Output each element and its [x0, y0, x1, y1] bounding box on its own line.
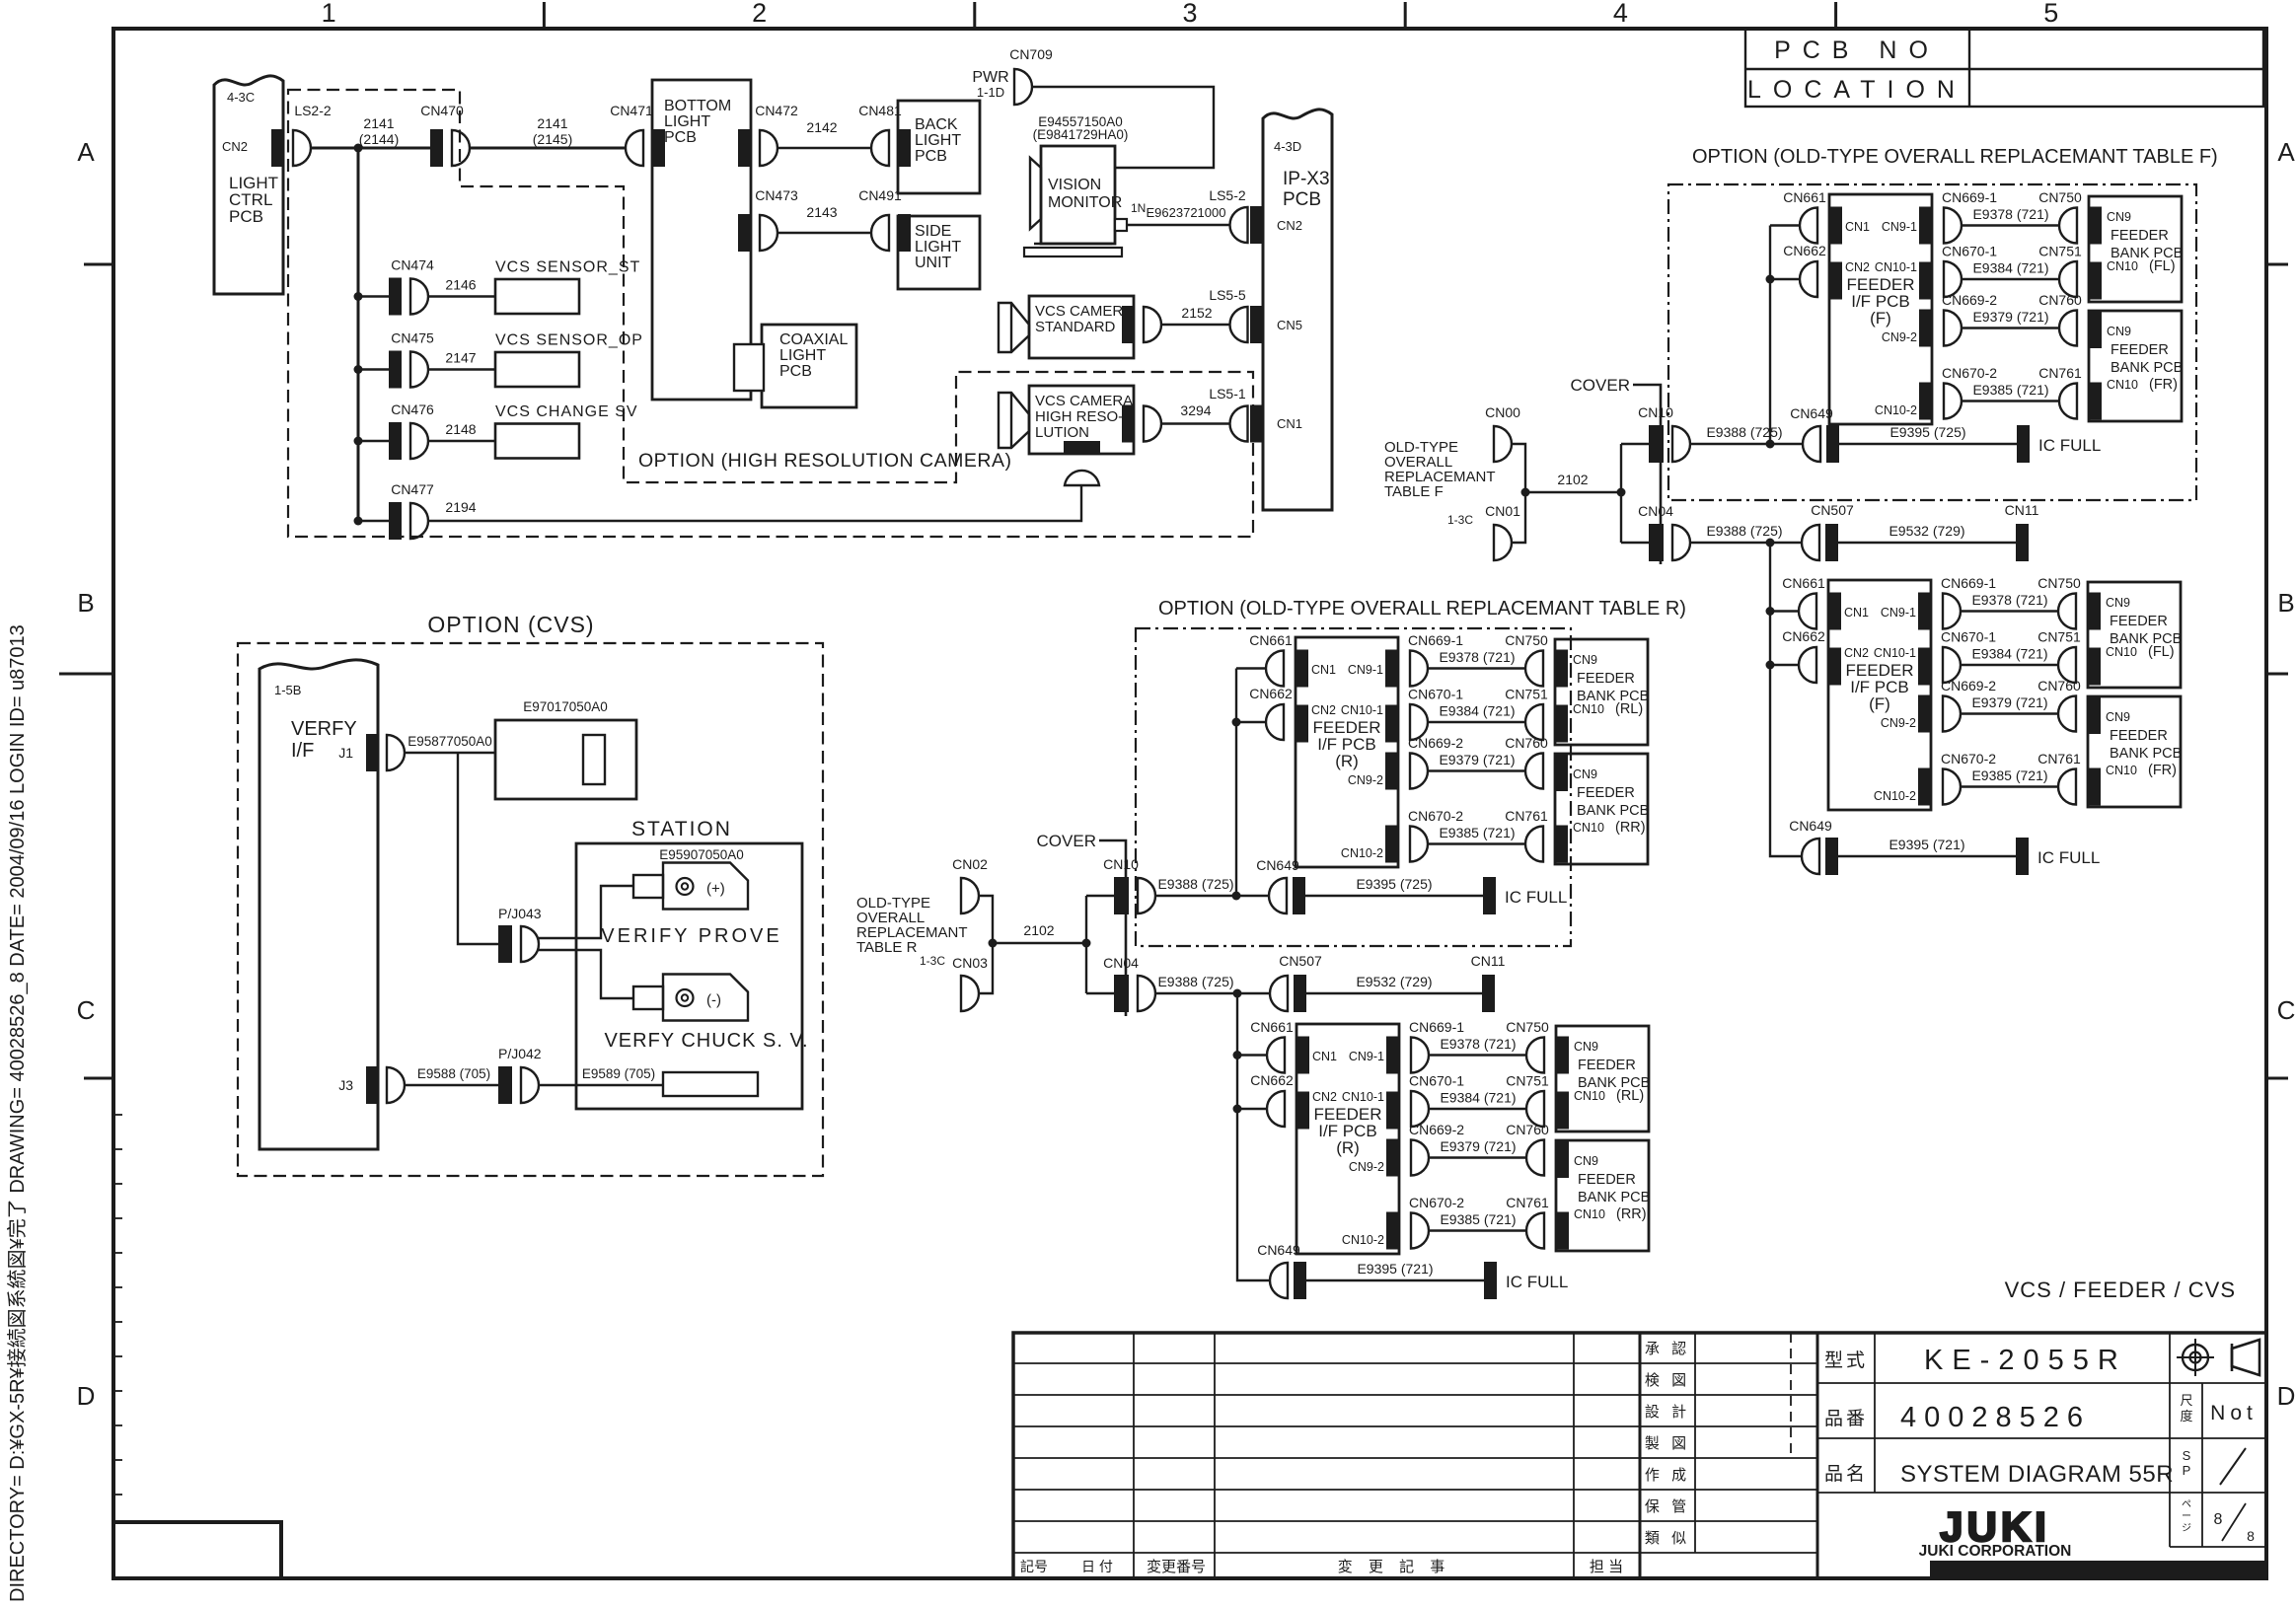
- svg-text:(RL): (RL): [1616, 1088, 1644, 1104]
- svg-text:CN10-2: CN10-2: [1874, 789, 1916, 803]
- svg-text:ー: ー: [2182, 1511, 2191, 1522]
- svg-text:IC FULL: IC FULL: [1506, 1273, 1568, 1291]
- svg-text:CN9: CN9: [1574, 1040, 1598, 1054]
- svg-text:設 計: 設 計: [1645, 1404, 1690, 1421]
- svg-text:SIDE: SIDE: [915, 223, 951, 240]
- svg-text:CN751: CN751: [1506, 1073, 1549, 1089]
- svg-text:CN761: CN761: [2037, 751, 2081, 766]
- svg-text:CN751: CN751: [2037, 629, 2081, 645]
- svg-text:C: C: [2277, 995, 2296, 1025]
- svg-text:CN10: CN10: [2107, 378, 2138, 392]
- svg-text:E9395 (721): E9395 (721): [1889, 837, 1964, 852]
- svg-text:BACK: BACK: [915, 116, 958, 133]
- svg-text:E9379 (721): E9379 (721): [1440, 1138, 1516, 1154]
- svg-text:(RR): (RR): [1616, 1206, 1647, 1222]
- svg-text:D: D: [2277, 1381, 2296, 1411]
- svg-text:VCS CAMERA: VCS CAMERA: [1035, 393, 1133, 409]
- svg-text:(-): (-): [706, 992, 721, 1009]
- svg-text:STANDARD: STANDARD: [1035, 319, 1116, 335]
- svg-text:CN670-2: CN670-2: [1941, 751, 1996, 766]
- svg-text:変更番号: 変更番号: [1147, 1559, 1206, 1575]
- svg-text:VERFY: VERFY: [291, 718, 357, 740]
- svg-text:CN10: CN10: [2106, 645, 2137, 659]
- svg-text:E9385 (721): E9385 (721): [1439, 825, 1515, 840]
- svg-text:CN10-1: CN10-1: [1342, 1090, 1384, 1104]
- svg-text:CN669-2: CN669-2: [1942, 292, 1997, 308]
- svg-text:CN02: CN02: [952, 856, 988, 872]
- svg-text:CN761: CN761: [1505, 808, 1548, 824]
- svg-text:作 成: 作 成: [1645, 1467, 1690, 1484]
- svg-text:CN661: CN661: [1783, 189, 1826, 205]
- svg-text:IC FULL: IC FULL: [2037, 848, 2100, 867]
- svg-text:1-1D: 1-1D: [977, 85, 1004, 100]
- svg-text:CN9-2: CN9-2: [1349, 1160, 1384, 1174]
- svg-text:E9379 (721): E9379 (721): [1439, 752, 1515, 767]
- svg-text:CN491: CN491: [858, 187, 902, 203]
- svg-text:度: 度: [2180, 1409, 2192, 1423]
- svg-text:CN649: CN649: [1789, 818, 1832, 834]
- svg-text:CN5: CN5: [1277, 318, 1302, 332]
- svg-text:C: C: [77, 995, 96, 1025]
- svg-text:(R): (R): [1336, 1138, 1360, 1157]
- svg-text:(RL): (RL): [1615, 701, 1643, 717]
- svg-text:FEEDER: FEEDER: [2111, 228, 2169, 244]
- svg-text:承 認: 承 認: [1645, 1341, 1690, 1357]
- svg-text:PCB: PCB: [1283, 189, 1321, 210]
- svg-text:PCB: PCB: [915, 148, 947, 165]
- svg-text:2142: 2142: [806, 119, 837, 135]
- svg-text:CN10-2: CN10-2: [1342, 1233, 1384, 1247]
- svg-text:CN10: CN10: [2106, 764, 2137, 777]
- svg-text:BANK PCB: BANK PCB: [1578, 1190, 1650, 1205]
- svg-text:CN10: CN10: [1574, 1207, 1605, 1221]
- svg-text:E9388 (725): E9388 (725): [1157, 876, 1233, 892]
- svg-text:ジ: ジ: [2182, 1523, 2191, 1534]
- svg-text:担 当: 担 当: [1590, 1559, 1623, 1575]
- svg-text:5: 5: [2043, 0, 2058, 28]
- svg-text:E95877050A0: E95877050A0: [407, 734, 492, 749]
- svg-text:B: B: [77, 588, 94, 618]
- svg-text:D: D: [77, 1381, 96, 1411]
- svg-text:1N: 1N: [1131, 201, 1146, 215]
- svg-text:VCS SENSOR_ST: VCS SENSOR_ST: [495, 259, 640, 276]
- svg-text:OPTION (HIGH RESOLUTION CAMERA: OPTION (HIGH RESOLUTION CAMERA): [638, 450, 1011, 472]
- svg-text:VCS SENSOR_OP: VCS SENSOR_OP: [495, 332, 643, 349]
- svg-text:CN9: CN9: [1574, 1154, 1598, 1168]
- svg-text:品名: 品名: [1824, 1463, 1868, 1485]
- svg-text:J3: J3: [338, 1077, 353, 1093]
- svg-text:KE-2055R: KE-2055R: [1924, 1345, 2127, 1376]
- svg-text:CN10-2: CN10-2: [1341, 846, 1383, 860]
- svg-text:CN10-1: CN10-1: [1341, 703, 1383, 717]
- svg-text:(F): (F): [1869, 694, 1890, 713]
- svg-text:CN669-1: CN669-1: [1941, 575, 1996, 591]
- svg-text:E9532 (729): E9532 (729): [1889, 523, 1964, 539]
- svg-text:CN476: CN476: [391, 401, 434, 417]
- svg-text:類 似: 類 似: [1645, 1530, 1690, 1547]
- svg-text:(FL): (FL): [2148, 644, 2175, 660]
- svg-text:4-3D: 4-3D: [1274, 139, 1301, 154]
- svg-text:VERFY CHUCK S. V.: VERFY CHUCK S. V.: [604, 1030, 808, 1052]
- svg-text:E9378 (721): E9378 (721): [1439, 649, 1515, 665]
- svg-text:E9379 (721): E9379 (721): [1972, 309, 2048, 325]
- svg-text:P: P: [2183, 1463, 2191, 1478]
- svg-text:品番: 品番: [1824, 1408, 1868, 1429]
- svg-text:PCB NO: PCB NO: [1774, 36, 1940, 64]
- svg-text:I/F: I/F: [291, 740, 314, 762]
- svg-text:CN669-2: CN669-2: [1941, 678, 1996, 693]
- svg-text:E9384 (721): E9384 (721): [1971, 646, 2047, 662]
- svg-text:FEEDER: FEEDER: [1578, 1172, 1636, 1188]
- svg-text:CN661: CN661: [1249, 632, 1293, 648]
- svg-text:E9589 (705): E9589 (705): [582, 1066, 655, 1081]
- svg-text:CN507: CN507: [1811, 502, 1854, 518]
- svg-text:PCB: PCB: [779, 363, 812, 380]
- svg-text:(FR): (FR): [2148, 763, 2177, 778]
- svg-text:LUTION: LUTION: [1035, 424, 1089, 441]
- svg-text:CN750: CN750: [2038, 189, 2082, 205]
- svg-text:CN470: CN470: [420, 103, 464, 118]
- svg-text:OPTION (OLD-TYPE OVERALL REPLA: OPTION (OLD-TYPE OVERALL REPLACEMANT TAB…: [1692, 146, 2218, 168]
- svg-text:BOTTOM: BOTTOM: [664, 98, 731, 114]
- svg-text:CN2: CN2: [222, 139, 248, 154]
- svg-text:CN9-1: CN9-1: [1881, 606, 1916, 620]
- svg-text:E9623721000: E9623721000: [1147, 205, 1226, 220]
- svg-text:CN649: CN649: [1790, 405, 1833, 421]
- svg-text:4: 4: [1613, 0, 1628, 28]
- svg-text:(R): (R): [1335, 752, 1359, 770]
- svg-text:CN760: CN760: [1505, 735, 1548, 751]
- svg-text:E9384 (721): E9384 (721): [1440, 1090, 1516, 1106]
- svg-text:(2145): (2145): [533, 131, 572, 147]
- svg-text:S: S: [2183, 1448, 2191, 1463]
- svg-text:1-5B: 1-5B: [274, 683, 301, 697]
- svg-text:2143: 2143: [806, 204, 837, 220]
- svg-text:(RR): (RR): [1615, 820, 1646, 836]
- svg-text:SYSTEM DIAGRAM 55R: SYSTEM DIAGRAM 55R: [1900, 1461, 2174, 1488]
- svg-text:(FL): (FL): [2149, 258, 2176, 274]
- svg-text:CN649: CN649: [1256, 857, 1299, 873]
- svg-text:3: 3: [1182, 0, 1197, 28]
- svg-text:CN481: CN481: [858, 103, 902, 118]
- svg-text:E9395 (725): E9395 (725): [1889, 424, 1965, 440]
- svg-text:E9384 (721): E9384 (721): [1439, 703, 1515, 719]
- svg-text:CN11: CN11: [1471, 953, 1506, 969]
- svg-text:CN10: CN10: [1103, 856, 1139, 872]
- svg-text:VCS CAMERA: VCS CAMERA: [1035, 303, 1133, 320]
- svg-text:1-3C: 1-3C: [920, 954, 945, 968]
- svg-text:変 更 記 事: 変 更 記 事: [1338, 1559, 1451, 1575]
- svg-text:DIRECTORY= D:¥GX-5R¥接続図系統図¥完了: DIRECTORY= D:¥GX-5R¥接続図系統図¥完了 DRAWING= 4…: [6, 624, 29, 1602]
- svg-text:記号: 記号: [1020, 1559, 1048, 1574]
- svg-text:FEEDER: FEEDER: [1577, 671, 1635, 687]
- svg-text:LIGHT: LIGHT: [915, 239, 961, 255]
- svg-text:OPTION (CVS): OPTION (CVS): [427, 612, 594, 637]
- svg-text:2148: 2148: [445, 421, 476, 437]
- svg-text:CN9: CN9: [1573, 653, 1597, 667]
- svg-text:IP-X3: IP-X3: [1283, 169, 1330, 189]
- svg-text:IC FULL: IC FULL: [2038, 436, 2101, 455]
- svg-text:CN751: CN751: [1505, 687, 1548, 702]
- svg-text:E9385 (721): E9385 (721): [1972, 382, 2048, 398]
- svg-text:2102: 2102: [1557, 472, 1588, 487]
- svg-text:E95907050A0: E95907050A0: [659, 847, 744, 862]
- svg-text:CN9-1: CN9-1: [1882, 220, 1917, 234]
- svg-text:CN670-1: CN670-1: [1408, 687, 1463, 702]
- svg-text:(2144): (2144): [359, 131, 399, 147]
- svg-text:CN669-1: CN669-1: [1942, 189, 1997, 205]
- svg-text:CN9-2: CN9-2: [1348, 773, 1383, 787]
- svg-text:CN2: CN2: [1277, 218, 1302, 233]
- svg-text:E9395 (725): E9395 (725): [1356, 876, 1432, 892]
- svg-text:COVER: COVER: [1037, 832, 1096, 850]
- svg-text:CN1: CN1: [1311, 663, 1336, 677]
- svg-text:尺: 尺: [2180, 1393, 2192, 1408]
- svg-text:2146: 2146: [445, 277, 476, 293]
- svg-text:CN10-2: CN10-2: [1875, 403, 1917, 417]
- svg-text:IC FULL: IC FULL: [1505, 888, 1567, 907]
- svg-text:CN649: CN649: [1257, 1242, 1300, 1258]
- svg-text:型式: 型式: [1824, 1350, 1868, 1371]
- svg-text:CN04: CN04: [1103, 955, 1139, 971]
- svg-text:COVER: COVER: [1571, 376, 1630, 395]
- svg-text:CN2: CN2: [1845, 260, 1870, 274]
- svg-text:LIGHT: LIGHT: [779, 347, 826, 364]
- svg-text:CN9: CN9: [1573, 767, 1597, 781]
- svg-text:CN11: CN11: [2005, 502, 2039, 518]
- svg-text:製 図: 製 図: [1645, 1435, 1690, 1452]
- svg-text:CN669-2: CN669-2: [1409, 1122, 1464, 1137]
- svg-text:(E9841729HA0): (E9841729HA0): [1033, 127, 1129, 142]
- svg-text:CN662: CN662: [1249, 686, 1293, 701]
- svg-text:CN1: CN1: [1277, 416, 1302, 431]
- svg-text:FEEDER: FEEDER: [1578, 1058, 1636, 1073]
- svg-text:JUKI CORPORATION: JUKI CORPORATION: [1919, 1543, 2072, 1560]
- svg-text:E9388 (725): E9388 (725): [1706, 523, 1782, 539]
- svg-text:LOCATION: LOCATION: [1747, 76, 1966, 104]
- svg-text:CN669-2: CN669-2: [1408, 735, 1463, 751]
- svg-text:CN9: CN9: [2107, 210, 2131, 224]
- svg-text:E9388 (725): E9388 (725): [1157, 974, 1233, 989]
- svg-text:A: A: [77, 137, 95, 167]
- svg-text:CN472: CN472: [755, 103, 798, 118]
- svg-text:UNIT: UNIT: [915, 255, 952, 271]
- svg-text:CN10: CN10: [2107, 259, 2138, 273]
- svg-text:CN709: CN709: [1009, 46, 1053, 62]
- svg-text:LS5-5: LS5-5: [1209, 287, 1246, 303]
- svg-text:E9384 (721): E9384 (721): [1972, 260, 2048, 276]
- svg-text:CN760: CN760: [1506, 1122, 1549, 1137]
- svg-text:CN1: CN1: [1845, 220, 1870, 234]
- svg-text:CN670-1: CN670-1: [1941, 629, 1996, 645]
- svg-text:40028526: 40028526: [1900, 1402, 2091, 1433]
- svg-text:CN475: CN475: [391, 330, 434, 346]
- svg-text:PCB: PCB: [664, 129, 697, 146]
- svg-text:2147: 2147: [445, 350, 476, 366]
- svg-text:CN474: CN474: [391, 257, 434, 273]
- svg-text:FEEDER: FEEDER: [2111, 342, 2169, 358]
- svg-text:TABLE F: TABLE F: [1384, 483, 1444, 500]
- svg-text:E97017050A0: E97017050A0: [523, 699, 608, 714]
- svg-text:(FR): (FR): [2149, 377, 2178, 393]
- svg-text:CN761: CN761: [2038, 365, 2082, 381]
- svg-text:VCS CHANGE SV: VCS CHANGE SV: [495, 403, 638, 420]
- svg-text:CN10-1: CN10-1: [1874, 646, 1916, 660]
- svg-text:P/J042: P/J042: [498, 1046, 542, 1061]
- svg-text:2102: 2102: [1023, 922, 1054, 938]
- svg-text:CN761: CN761: [1506, 1195, 1549, 1210]
- svg-text:FEEDER: FEEDER: [2110, 614, 2168, 629]
- svg-text:CN662: CN662: [1782, 628, 1825, 644]
- svg-text:CN662: CN662: [1250, 1072, 1294, 1088]
- svg-text:FEEDER: FEEDER: [2110, 728, 2168, 744]
- svg-text:4-3C: 4-3C: [227, 90, 255, 105]
- svg-text:日 付: 日 付: [1081, 1559, 1113, 1574]
- svg-text:COAXIAL: COAXIAL: [779, 331, 848, 348]
- svg-text:CN661: CN661: [1250, 1019, 1294, 1035]
- svg-text:CN9-2: CN9-2: [1882, 330, 1917, 344]
- svg-text:VCS / FEEDER / CVS: VCS / FEEDER / CVS: [2005, 1277, 2236, 1302]
- svg-text:CN751: CN751: [2038, 244, 2082, 259]
- svg-text:CN750: CN750: [1506, 1019, 1549, 1035]
- svg-text:CN2: CN2: [1311, 703, 1336, 717]
- svg-text:(F): (F): [1870, 309, 1891, 328]
- svg-text:CN670-1: CN670-1: [1942, 244, 1997, 259]
- svg-text:E9378 (721): E9378 (721): [1972, 206, 2048, 222]
- svg-text:CN477: CN477: [391, 481, 434, 497]
- svg-text:1-3C: 1-3C: [1447, 513, 1473, 527]
- svg-text:8: 8: [2247, 1528, 2255, 1544]
- svg-text:CN9-1: CN9-1: [1348, 663, 1383, 677]
- svg-text:CN04: CN04: [1638, 503, 1673, 519]
- svg-text:ペ: ペ: [2182, 1499, 2191, 1510]
- svg-text:CN2: CN2: [1312, 1090, 1337, 1104]
- svg-text:E9532 (729): E9532 (729): [1356, 974, 1432, 989]
- svg-text:BANK PCB: BANK PCB: [2110, 746, 2182, 762]
- svg-text:CN10: CN10: [1574, 1089, 1605, 1103]
- svg-text:P/J043: P/J043: [498, 906, 542, 921]
- svg-text:CN10: CN10: [1573, 702, 1604, 716]
- svg-text:CN760: CN760: [2037, 678, 2081, 693]
- svg-text:TABLE R: TABLE R: [856, 939, 918, 956]
- svg-text:CN661: CN661: [1782, 575, 1825, 591]
- svg-text:CN670-2: CN670-2: [1942, 365, 1997, 381]
- svg-text:CN760: CN760: [2038, 292, 2082, 308]
- svg-text:LIGHT: LIGHT: [915, 132, 961, 149]
- svg-text:CN662: CN662: [1783, 243, 1826, 258]
- svg-text:LS5-2: LS5-2: [1209, 187, 1246, 203]
- svg-text:Not: Not: [2210, 1402, 2258, 1424]
- svg-text:(+): (+): [706, 881, 725, 898]
- svg-text:2152: 2152: [1181, 305, 1212, 321]
- svg-text:VISION: VISION: [1048, 177, 1101, 193]
- svg-text:CN750: CN750: [1505, 632, 1548, 648]
- svg-text:CN471: CN471: [610, 103, 653, 118]
- svg-text:CN1: CN1: [1312, 1050, 1337, 1063]
- svg-text:OPTION (OLD-TYPE OVERALL REPLA: OPTION (OLD-TYPE OVERALL REPLACEMANT TAB…: [1158, 598, 1686, 620]
- svg-text:BANK PCB: BANK PCB: [1577, 803, 1649, 819]
- svg-text:E9385 (721): E9385 (721): [1440, 1211, 1516, 1227]
- svg-text:B: B: [2277, 588, 2294, 618]
- svg-text:CN670-2: CN670-2: [1408, 808, 1463, 824]
- svg-text:CN473: CN473: [755, 187, 798, 203]
- svg-text:E9379 (721): E9379 (721): [1971, 694, 2047, 710]
- svg-text:CN1: CN1: [1844, 606, 1869, 620]
- svg-text:CN2: CN2: [1844, 646, 1869, 660]
- svg-text:CN03: CN03: [952, 955, 988, 971]
- svg-text:PWR: PWR: [972, 69, 1008, 86]
- svg-text:CN01: CN01: [1485, 503, 1520, 519]
- svg-text:STATION: STATION: [631, 818, 732, 840]
- svg-text:8: 8: [2214, 1511, 2223, 1528]
- svg-text:2: 2: [752, 0, 767, 28]
- svg-text:PCB: PCB: [229, 207, 263, 226]
- svg-text:LIGHT: LIGHT: [664, 113, 710, 130]
- svg-text:2194: 2194: [445, 499, 476, 515]
- svg-text:CN9: CN9: [2107, 325, 2131, 338]
- svg-text:検 図: 検 図: [1645, 1372, 1690, 1389]
- svg-text:CN507: CN507: [1279, 953, 1322, 969]
- svg-text:E9588 (705): E9588 (705): [417, 1066, 490, 1081]
- svg-text:CN00: CN00: [1485, 404, 1520, 420]
- svg-text:CN670-2: CN670-2: [1409, 1195, 1464, 1210]
- svg-text:CN9: CN9: [2106, 710, 2130, 724]
- svg-text:3294: 3294: [1180, 402, 1211, 418]
- svg-text:A: A: [2277, 137, 2295, 167]
- svg-text:VERIFY PROVE: VERIFY PROVE: [601, 925, 781, 947]
- svg-text:CN9: CN9: [2106, 596, 2130, 610]
- svg-text:2141: 2141: [363, 115, 394, 131]
- svg-text:LS5-1: LS5-1: [1209, 386, 1246, 401]
- svg-text:HIGH RESO-: HIGH RESO-: [1035, 408, 1123, 425]
- svg-text:E9395 (721): E9395 (721): [1357, 1261, 1433, 1277]
- svg-text:FEEDER: FEEDER: [1577, 785, 1635, 801]
- svg-text:CN9-2: CN9-2: [1881, 716, 1916, 730]
- svg-text:J1: J1: [338, 745, 353, 761]
- svg-text:CN750: CN750: [2037, 575, 2081, 591]
- svg-text:CN669-1: CN669-1: [1408, 632, 1463, 648]
- svg-text:1: 1: [322, 0, 336, 28]
- svg-text:E9385 (721): E9385 (721): [1971, 767, 2047, 783]
- svg-text:CN669-1: CN669-1: [1409, 1019, 1464, 1035]
- svg-text:CN10: CN10: [1638, 404, 1673, 420]
- svg-text:E9388 (725): E9388 (725): [1706, 424, 1782, 440]
- svg-text:CN10: CN10: [1573, 821, 1604, 835]
- svg-text:CN9-1: CN9-1: [1349, 1050, 1384, 1063]
- svg-text:MONITOR: MONITOR: [1048, 194, 1122, 211]
- svg-text:LS2-2: LS2-2: [294, 103, 332, 118]
- svg-text:CN10-1: CN10-1: [1875, 260, 1917, 274]
- svg-text:E9378 (721): E9378 (721): [1440, 1036, 1516, 1052]
- svg-text:2141: 2141: [537, 115, 567, 131]
- svg-text:E9378 (721): E9378 (721): [1971, 592, 2047, 608]
- svg-text:保 管: 保 管: [1645, 1498, 1690, 1515]
- svg-text:BANK PCB: BANK PCB: [2111, 360, 2183, 376]
- svg-text:CN670-1: CN670-1: [1409, 1073, 1464, 1089]
